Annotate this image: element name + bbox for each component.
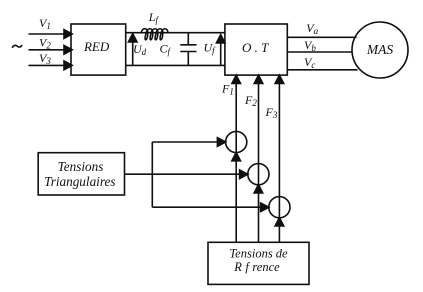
control line F3 vertical <box>278 75 280 242</box>
arrowhead into comparator 2 left <box>240 170 248 179</box>
wire branch vertical <box>151 142 153 207</box>
inverter O.T box <box>225 24 287 75</box>
svg-text:Tensions: Tensions <box>58 159 104 174</box>
voltage arrow Ud <box>132 42 134 66</box>
arrowhead into comparator 1 left <box>217 138 225 147</box>
arrowhead into RED pin 1 <box>64 30 72 39</box>
wire branch bottom to comparator 3 <box>152 206 261 208</box>
motor MAS circle <box>352 22 408 78</box>
svg-text:MAS: MAS <box>366 42 393 57</box>
ac source tilde <box>12 45 22 48</box>
arrowhead into RED pin 2 <box>64 45 72 54</box>
voltage arrow Uf <box>220 43 222 66</box>
arrowhead into comparator 3 from below <box>275 218 284 226</box>
rectifier RED box <box>71 24 126 75</box>
wire V1 <box>29 33 65 35</box>
comparator circle 2 <box>248 164 269 185</box>
svg-text:Tensions de: Tensions de <box>229 247 288 261</box>
arrowhead F3 into O.T <box>275 75 284 83</box>
arrowhead into comparator 3 left <box>261 203 269 212</box>
svg-text:RED: RED <box>83 39 110 54</box>
wire V3 <box>29 64 65 66</box>
wire branch top to comparator 1 <box>152 141 218 143</box>
svg-text:Rfrence: Rfrence <box>233 260 280 274</box>
wire dc bus bottom <box>126 64 225 66</box>
arrowhead into RED pin 3 <box>64 61 72 70</box>
wire from triangular box to comparator 2 <box>125 173 241 175</box>
arrowhead F1 into O.T <box>232 75 241 83</box>
comparator circle 3 <box>269 197 290 218</box>
comparator circle 1 <box>226 131 247 152</box>
svg-text:O . T: O . T <box>242 40 269 55</box>
triangular voltages box <box>38 153 124 195</box>
control line F2 vertical <box>258 75 260 242</box>
arrowhead into comparator 1 from below <box>232 152 241 160</box>
capacitor Cf <box>187 33 189 45</box>
wire dc bus top <box>126 32 225 34</box>
arrowhead F2 into O.T <box>254 75 263 83</box>
wire phase Vc <box>287 69 357 71</box>
inductor Lf coil <box>141 29 168 40</box>
wire phase Va <box>287 36 356 38</box>
arrowhead into comparator 2 from below <box>254 185 263 193</box>
wire V2 <box>29 49 65 51</box>
reference voltages box <box>208 242 309 284</box>
svg-text:Triangulaires: Triangulaires <box>44 174 115 189</box>
control line F1 vertical <box>235 75 237 242</box>
wire phase Vb <box>287 51 352 53</box>
